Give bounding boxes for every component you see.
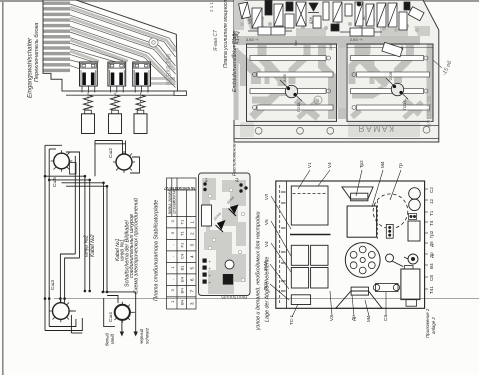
chassis left strip [286,181,288,308]
svg-text:К+: К+ [205,178,209,182]
svg-text:5мк: 5мк [294,40,298,46]
wire horizontals to socket A [45,175,85,177]
svg-text:1: 1 [170,300,175,303]
field dashed circle [373,194,408,229]
board outline [234,0,439,142]
svg-text:1: 1 [190,221,195,224]
speaker (bottom) [336,291,382,308]
svg-text:2: 2 [190,232,195,235]
capacitor [357,2,361,6]
wire loop right of socket B [130,157,140,173]
leader ticks right [425,189,428,289]
svg-text:V1: V1 [307,162,312,168]
tube socket Сш3 (bottom-left) [50,280,73,323]
tilted resistor [382,42,403,56]
svg-text:Сш4: Сш4 [108,312,114,322]
wire cable pair left [44,145,46,330]
svg-text:ЗАЖИМ: ЗАЖИМ [168,190,172,202]
tube socket Сш2 (top-right) [108,148,135,173]
svg-text:2-05: 2-05 [282,73,287,82]
table pin numbers [190,221,195,306]
component pads [240,16,419,32]
wire box around socket D [104,298,115,327]
svg-text:черный: черный [139,328,144,344]
board bottom edge second line [66,94,174,96]
svg-text:V4: V4 [327,162,332,168]
diode D7 [309,3,318,11]
filter block 3 [291,268,308,289]
spring contact 2 [109,93,122,134]
resistor [274,4,283,26]
svg-text:В4: В4 [429,263,434,269]
svg-text:BV1235Д 25: BV1235Д 25 [427,96,433,127]
wire from socket D down [121,320,123,332]
filter block 2 [311,245,328,265]
svg-text:юр: юр [400,45,404,50]
svg-text:-: - [170,244,175,246]
filter block 1 [291,245,308,265]
svg-text:Т1: Т1 [180,219,185,224]
thin dark traces (diagonal bundle) [70,4,176,88]
strip stitch marks [281,192,286,291]
resistor R axial with leads [248,27,292,35]
fuse (horizontal) [376,284,399,292]
wire cable pair middle [84,176,86,291]
labels top [307,160,403,168]
pads top [203,182,247,192]
svg-text:Eingangswahlschalter: Eingangswahlschalter [27,37,34,98]
top row of components on amplifier board [239,0,424,57]
wire arrows [120,332,124,337]
svg-text:Weiß: Weiß [110,334,115,344]
svg-text:schwarz: schwarz [145,327,150,344]
svg-text:3: 3 [190,244,195,247]
svg-text:В1: В1 [180,265,185,271]
svg-text:-: - [170,278,175,280]
copper pour areas [234,0,430,36]
table values [180,219,185,305]
capacitor [331,24,339,31]
svg-text:3: 3 [170,220,175,223]
svg-text:3-КЗ ⊣: 3-КЗ ⊣ [246,38,259,42]
svg-text:ВС: ВС [362,15,366,20]
svg-text:С8: С8 [429,275,434,281]
tube socket Сш5 (top-left) [51,150,76,187]
svg-text:86 БХ8 188: 86 БХ8 188 [167,53,173,85]
svg-text:2кб: 2кб [329,45,333,50]
svg-text:П214: П214 [296,102,301,112]
svg-text:ВИЛКА: ВИЛКА [168,203,172,214]
svg-text:12: 12 [429,198,434,204]
tube socket V (large, 7 holes) [345,243,380,278]
labels left [263,194,269,290]
svg-text:С3: С3 [383,315,388,321]
electrolytic capacitors C2 C3 [409,188,421,200]
wire loop right of socket A [66,152,80,258]
capacitor [286,2,293,11]
svg-text:Др: Др [429,252,434,258]
board logo circle [149,38,158,47]
svg-text:узлов и деталей, необходимых д: узлов и деталей, необходимых для настрой… [255,211,262,331]
svg-text:С2: С2 [429,187,434,193]
svg-text:ВЧ: ВЧ [180,288,185,293]
tube socket Сш4 (bottom-right) [108,302,135,323]
card edge contact stripes [44,2,71,73]
mounting holes [255,127,262,134]
slot [257,72,333,77]
slot [257,105,333,110]
svg-text:ТС-1: ТС-1 [289,314,294,325]
heatsink area 1 [247,44,337,121]
svg-text:KONTAKT: KONTAKT [173,188,177,203]
copper traces [202,178,246,294]
electrolytic can C8 [401,269,420,300]
labels bottom [289,314,388,325]
slot [250,89,326,94]
power transformer [347,206,377,237]
terminal B4 [409,214,417,220]
svg-text:2-05: 2-05 [388,71,393,80]
output transformer [291,186,328,225]
resistor R1 [202,205,212,226]
fold line [54,298,479,300]
svg-text:белый: белый [105,333,110,346]
switch S2 [108,62,126,93]
svg-text:Гр: Гр [398,163,403,168]
trace holes [208,188,245,282]
page top edge [0,0,479,2]
svg-text:Тр2: Тр2 [359,160,364,168]
wide grey traces (diagonal bundle) [70,7,175,85]
svg-text:F1: F1 [180,242,185,247]
wire bottom loop [45,318,82,331]
diode D1 [217,220,226,230]
resistor R axial with leads [340,28,382,36]
circled 3 mark [314,96,322,104]
copper plane between heatsinks [338,48,347,108]
terminal strip TC-1 [291,295,310,305]
svg-text:Endstufenverstärker Platte: Endstufenverstärker Platte [232,31,238,92]
filter block 4 [311,268,328,289]
svg-text:Д5: Д5 [429,241,434,247]
labels right [429,187,434,294]
svg-text:Т1: Т1 [429,210,434,216]
fuse holder [408,254,418,264]
board outline [199,173,251,296]
resistor [239,2,251,19]
switch S3 [133,62,151,93]
resistor [399,12,407,30]
svg-text:Т1: Т1 [180,231,185,236]
svg-text:Schaltschema der Bildkabel: Schaltschema der Bildkabel [125,220,131,287]
svg-text:Плата стабилизатора Stabilis: Плата стабилизатора Stabilisatorplatte [154,200,160,301]
wire loop socket C [69,310,76,312]
capacitor (electrolytic) [265,0,272,15]
resistor [388,3,397,27]
svg-text:ВК0150ШД5: ВК0150ШД5 [221,295,247,300]
grey copper traces [234,41,430,121]
callout lines bottom [292,291,386,317]
spring contact 1 [82,93,95,134]
handwritten note -15 v [433,60,442,68]
callout lines left [270,196,291,300]
svg-text:Гр2: Гр2 [429,230,434,238]
svg-text:М4: М4 [366,315,371,322]
svg-text:1: 1 [170,266,175,269]
diode D2 [230,205,239,215]
svg-text:anlage 2: anlage 2 [431,317,436,334]
svg-text:ЕЧ: ЕЧ [180,276,185,282]
resistor [333,2,342,22]
svg-text:С4: С4 [180,253,185,259]
page left edge line [2,2,4,375]
transistor T [225,260,234,269]
svg-text:7: 7 [190,290,195,293]
solder pads (connector) [203,259,207,284]
capacitor (electrolytic) [404,2,410,10]
svg-text:V5: V5 [264,219,269,225]
svg-text:2 1 1 +: 2 1 1 + [209,0,214,12]
svg-text:Пр1: Пр1 [263,281,268,290]
resistor [285,14,294,28]
svg-text:Сш2: Сш2 [108,148,114,158]
resistor [377,3,386,27]
svg-text:4: 4 [190,255,195,258]
wire top [45,144,62,146]
resistor [323,2,329,20]
svg-text:Д7Ж: Д7Ж [309,16,313,24]
resistor [313,16,321,28]
callout lines top [298,170,401,207]
svg-text:Я-ваа С7: Я-ваа С7 [213,30,219,52]
potentiometer with lever [386,254,394,262]
svg-text:Т4: Т4 [429,220,434,226]
svg-text:6: 6 [190,278,195,281]
svg-text:Kabel №2: Kabel №2 [90,234,96,257]
svg-text:Расположение: Расположение [232,143,238,176]
spring contact 3 [134,93,147,134]
svg-text:МЛТ: МЛТ [248,17,252,24]
trimmer [296,2,306,26]
svg-text:25: 25 [172,46,177,52]
svg-text:М4: М4 [380,161,385,168]
resistor [355,2,363,26]
component value labels [246,38,363,42]
svg-text:Сш5: Сш5 [52,177,58,187]
svg-text:Переключатель блока: Переключатель блока [34,23,40,82]
svg-text:2-КЗ ⊣: 2-КЗ ⊣ [350,38,363,42]
power transistor T2 [386,71,408,110]
svg-text:Сш3: Сш3 [50,280,56,290]
svg-text:ЗЧМ: ЗЧМ [263,261,268,271]
copper on mounting band [348,123,420,138]
board outline [43,0,178,91]
terminal strip (3 dots) [386,224,393,238]
svg-text:V3: V3 [329,315,334,321]
wire cable pair right [103,183,105,292]
svg-text:ВЧ: ВЧ [180,300,185,305]
resistor [252,8,262,28]
choke Dr [408,221,420,241]
wire step to socket C [60,254,75,303]
capacitor C [223,274,233,285]
svg-text:КАМАЯ: КАМАЯ [357,124,394,134]
svg-text:Др: Др [351,315,356,321]
svg-text:3: 3 [190,302,195,305]
chassis outline [276,181,425,308]
power transistor T1 [280,73,302,112]
switch S1 [80,62,98,93]
bottom mounting band [234,125,439,127]
svg-text:5: 5 [170,231,175,234]
svg-text:Приложение 2: Приложение 2 [425,308,430,338]
resistor [345,4,352,16]
svg-text:шнур №2: шнур №2 [84,235,90,257]
slot [250,56,326,61]
svg-text:-: - [170,255,175,257]
speaker (top) [342,187,373,199]
resistor [366,4,374,26]
svg-text:V4: V4 [264,241,269,247]
svg-text:Т41: Т41 [429,286,434,294]
svg-text:Д1: Д1 [235,178,239,182]
svg-text:-15 об: -15 об [441,59,453,77]
svg-text:П214: П214 [402,100,407,110]
svg-text:5: 5 [190,267,195,270]
wire to socket B [122,141,124,155]
tilted resistor [408,7,424,21]
board mounting tab [174,91,187,95]
heatsink area 2 [347,44,433,121]
svg-text:VЛ: VЛ [264,194,269,200]
svg-text:3: 3 [170,289,175,292]
wire corner to socket D [103,292,136,332]
svg-text:Плата усилителя мощности: Плата усилителя мощности [223,0,229,68]
junction dots [44,175,109,300]
